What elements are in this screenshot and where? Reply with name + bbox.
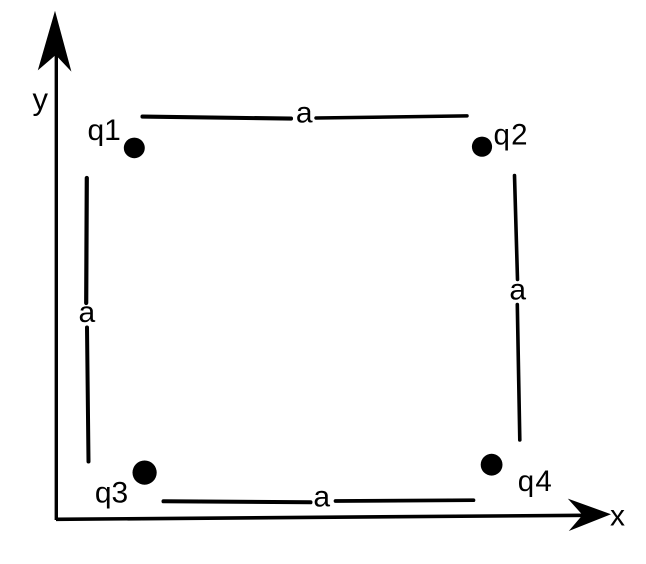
wire right upper segment: [515, 176, 518, 280]
y-axis arrowhead: [38, 11, 72, 72]
svg-text:a: a: [78, 296, 95, 329]
wire right lower segment: [517, 305, 520, 441]
charge q2 dot: [472, 137, 492, 157]
charge q1 dot: [124, 138, 145, 159]
x-axis line: [56, 515, 585, 519]
svg-text:y: y: [32, 81, 48, 116]
wire bottom-right segment: [336, 498, 474, 502]
wire top-right segment: [316, 116, 467, 118]
wire top-left segment: [143, 117, 292, 119]
wire left upper segment: [84, 178, 89, 303]
svg-text:q1: q1: [88, 114, 121, 147]
y-axis line: [55, 50, 58, 520]
x-axis arrowhead: [568, 499, 611, 531]
svg-text:q2: q2: [493, 118, 528, 151]
svg-text:a: a: [509, 274, 526, 307]
svg-text:a: a: [313, 481, 330, 514]
svg-text:x: x: [610, 500, 625, 533]
wire left lower segment: [87, 328, 89, 462]
svg-text:q3: q3: [95, 477, 128, 510]
charge q3 dot: [133, 461, 157, 485]
svg-text:a: a: [296, 96, 313, 129]
charge q4 dot: [481, 454, 503, 476]
wire bottom-left segment: [164, 501, 311, 502]
svg-text:q4: q4: [518, 465, 553, 498]
